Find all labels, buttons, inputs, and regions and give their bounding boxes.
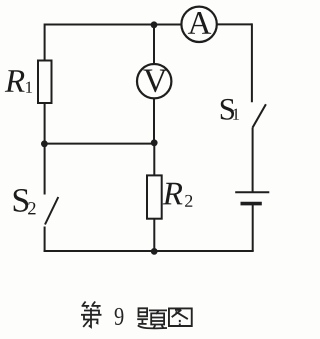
wire left: top-left corner down to R1 bbox=[44, 24, 46, 61]
resistor R2 body bbox=[147, 175, 162, 218]
caption: 题 bbox=[137, 308, 167, 328]
voltmeter U2 label V bbox=[143, 70, 167, 93]
voltmeter U2 circle bbox=[137, 64, 171, 98]
node: junction left (S2 branch / middle wire) bbox=[41, 140, 48, 147]
wire middle horizontal: left branch to centre node bbox=[45, 143, 154, 145]
label R2 bbox=[163, 183, 183, 205]
label S1 bbox=[221, 99, 234, 120]
wire left: S2 to bottom-left corner bbox=[44, 227, 46, 253]
wire top: ammeter right to top-right corner bbox=[217, 23, 252, 25]
battery B1 long plate (+) bbox=[235, 191, 269, 193]
wire left: R1 to S2 bbox=[44, 103, 46, 195]
node: junction top (centre wire / top wire) bbox=[151, 21, 158, 28]
ammeter U1 label A bbox=[188, 12, 211, 34]
ammeter U1 circle bbox=[181, 7, 216, 42]
wire centre: mid node to R2 bbox=[153, 143, 155, 176]
wire right: S1 to battery top plate bbox=[252, 128, 254, 193]
switch S2 blade bbox=[45, 197, 58, 225]
caption: 图 bbox=[169, 308, 192, 326]
label R1 bbox=[5, 70, 25, 92]
caption: 9 bbox=[115, 308, 124, 325]
switch S1 blade bbox=[253, 104, 266, 127]
wire bottom bbox=[44, 250, 254, 252]
node: junction bottom (centre wire / bottom wire) bbox=[151, 248, 158, 255]
node: junction mid (centre wire / middle wire) bbox=[151, 139, 158, 146]
wire top: top-left corner to ammeter left bbox=[45, 24, 182, 26]
wire centre: R2 to bottom node bbox=[153, 219, 155, 252]
wire centre: voltmeter to mid node bbox=[153, 99, 155, 144]
wire right: battery to bottom-right corner bbox=[252, 204, 254, 251]
caption: 第 bbox=[81, 302, 102, 328]
label S2 bbox=[14, 189, 29, 212]
wire centre: top node down to voltmeter bbox=[153, 25, 155, 64]
battery B1 short plate (-) bbox=[241, 202, 262, 206]
resistor R1 body bbox=[38, 61, 52, 104]
wire right: top-right corner down to S1 bbox=[251, 23, 253, 102]
